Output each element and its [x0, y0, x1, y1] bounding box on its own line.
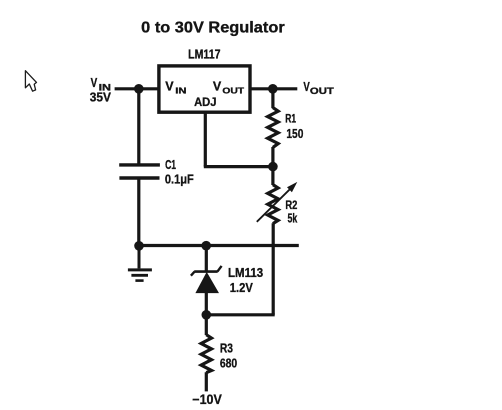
junction VOUT node: [268, 84, 278, 94]
wire VIN input: [115, 87, 158, 90]
resistor R3: [201, 335, 211, 373]
capacitor C1: [119, 163, 160, 166]
wire VOUT to R1: [271, 89, 274, 108]
svg-text:R1: R1: [285, 113, 296, 125]
op-amp U1 LM117 box: [159, 66, 250, 112]
wire R3 top: [205, 315, 208, 335]
svg-text:150: 150: [286, 126, 303, 141]
wire R1 to ADJ node: [271, 147, 274, 167]
wire ADJ node to R2: [271, 167, 274, 185]
diode D1 LM113 zener: [191, 266, 222, 276]
junction anode node: [202, 310, 212, 320]
wire C1 to rail: [137, 178, 140, 246]
svg-text:5k: 5k: [288, 212, 298, 226]
svg-text:V: V: [165, 79, 174, 93]
wire ADJ pin down: [204, 112, 207, 166]
svg-text:1.2V: 1.2V: [230, 280, 253, 295]
svg-text:LM113: LM113: [228, 266, 263, 280]
resistor R2: [268, 185, 278, 224]
svg-text:R2: R2: [285, 200, 297, 212]
resistor R1: [268, 108, 279, 148]
wire ADJ horizontal: [204, 165, 273, 168]
wire R3 bottom: [205, 372, 208, 391]
mouse cursor: [25, 71, 36, 92]
wire rail to LM113 cathode: [205, 246, 208, 272]
wire anode to R2 corner: [206, 313, 274, 316]
ground: [128, 246, 152, 281]
svg-text:V: V: [213, 79, 222, 93]
svg-text:OUT: OUT: [310, 86, 335, 96]
svg-text:R3: R3: [220, 340, 233, 355]
svg-text:V: V: [91, 75, 98, 90]
junction rail LM113 node: [201, 241, 211, 251]
svg-text:−10V: −10V: [192, 392, 222, 407]
svg-text:0.1μF: 0.1μF: [165, 172, 194, 187]
potentiometer arrow R2: [257, 189, 291, 222]
svg-text:IN: IN: [175, 86, 186, 96]
wire R2 bottom down to lower corner: [272, 223, 275, 315]
wire ground rail: [139, 244, 299, 247]
svg-text:C1: C1: [165, 157, 176, 172]
junction input node: [134, 84, 144, 94]
wire VOUT output: [252, 87, 298, 90]
svg-text:35V: 35V: [90, 90, 111, 105]
svg-text:0 to 30V Regulator: 0 to 30V Regulator: [141, 20, 285, 37]
junction ADJ node: [268, 162, 278, 172]
svg-text:680: 680: [220, 356, 237, 371]
wire LM113 anode down: [205, 293, 208, 315]
junction rail left node: [134, 241, 144, 251]
svg-text:OUT: OUT: [222, 86, 245, 96]
svg-text:ADJ: ADJ: [194, 95, 216, 109]
svg-text:LM117: LM117: [188, 47, 220, 62]
wire C1 column: [137, 89, 140, 164]
